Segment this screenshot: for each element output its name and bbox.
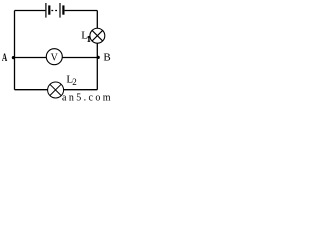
svg-text:an5.com: an5.com — [62, 93, 111, 102]
wire: middle horizontal from node A to voltmeter — [15, 57, 47, 59]
lamp L2 (circle with X) — [48, 82, 64, 98]
svg-text:L: L — [81, 30, 88, 42]
node B (junction dot) — [97, 56, 100, 59]
wire: right vertical upper segment down to lamp L1 — [96, 11, 98, 29]
battery BT (two cells with dashed link) — [46, 3, 64, 18]
wire: middle horizontal from voltmeter to node B — [62, 57, 97, 59]
wire: left vertical from top corner through node A to bottom corner — [14, 11, 16, 90]
svg-text:A: A — [2, 52, 8, 65]
wire: bottom-right horizontal from lamp L2 to corner — [63, 89, 97, 91]
node A (junction dot) — [12, 56, 15, 59]
wire: right vertical lower segment from lamp L1 through node B to bottom corner — [96, 43, 98, 89]
wire: top-left horizontal from corner to battery — [15, 10, 46, 12]
svg-text:B: B — [103, 52, 110, 64]
svg-text:V: V — [51, 52, 59, 63]
svg-text:2: 2 — [72, 77, 77, 87]
wire: bottom-left horizontal from corner to lamp L2 — [15, 89, 48, 91]
lamp L1 (circle with X) — [90, 28, 105, 43]
wire: top-right horizontal from battery to right corner — [65, 10, 98, 12]
voltmeter V — [46, 49, 62, 65]
